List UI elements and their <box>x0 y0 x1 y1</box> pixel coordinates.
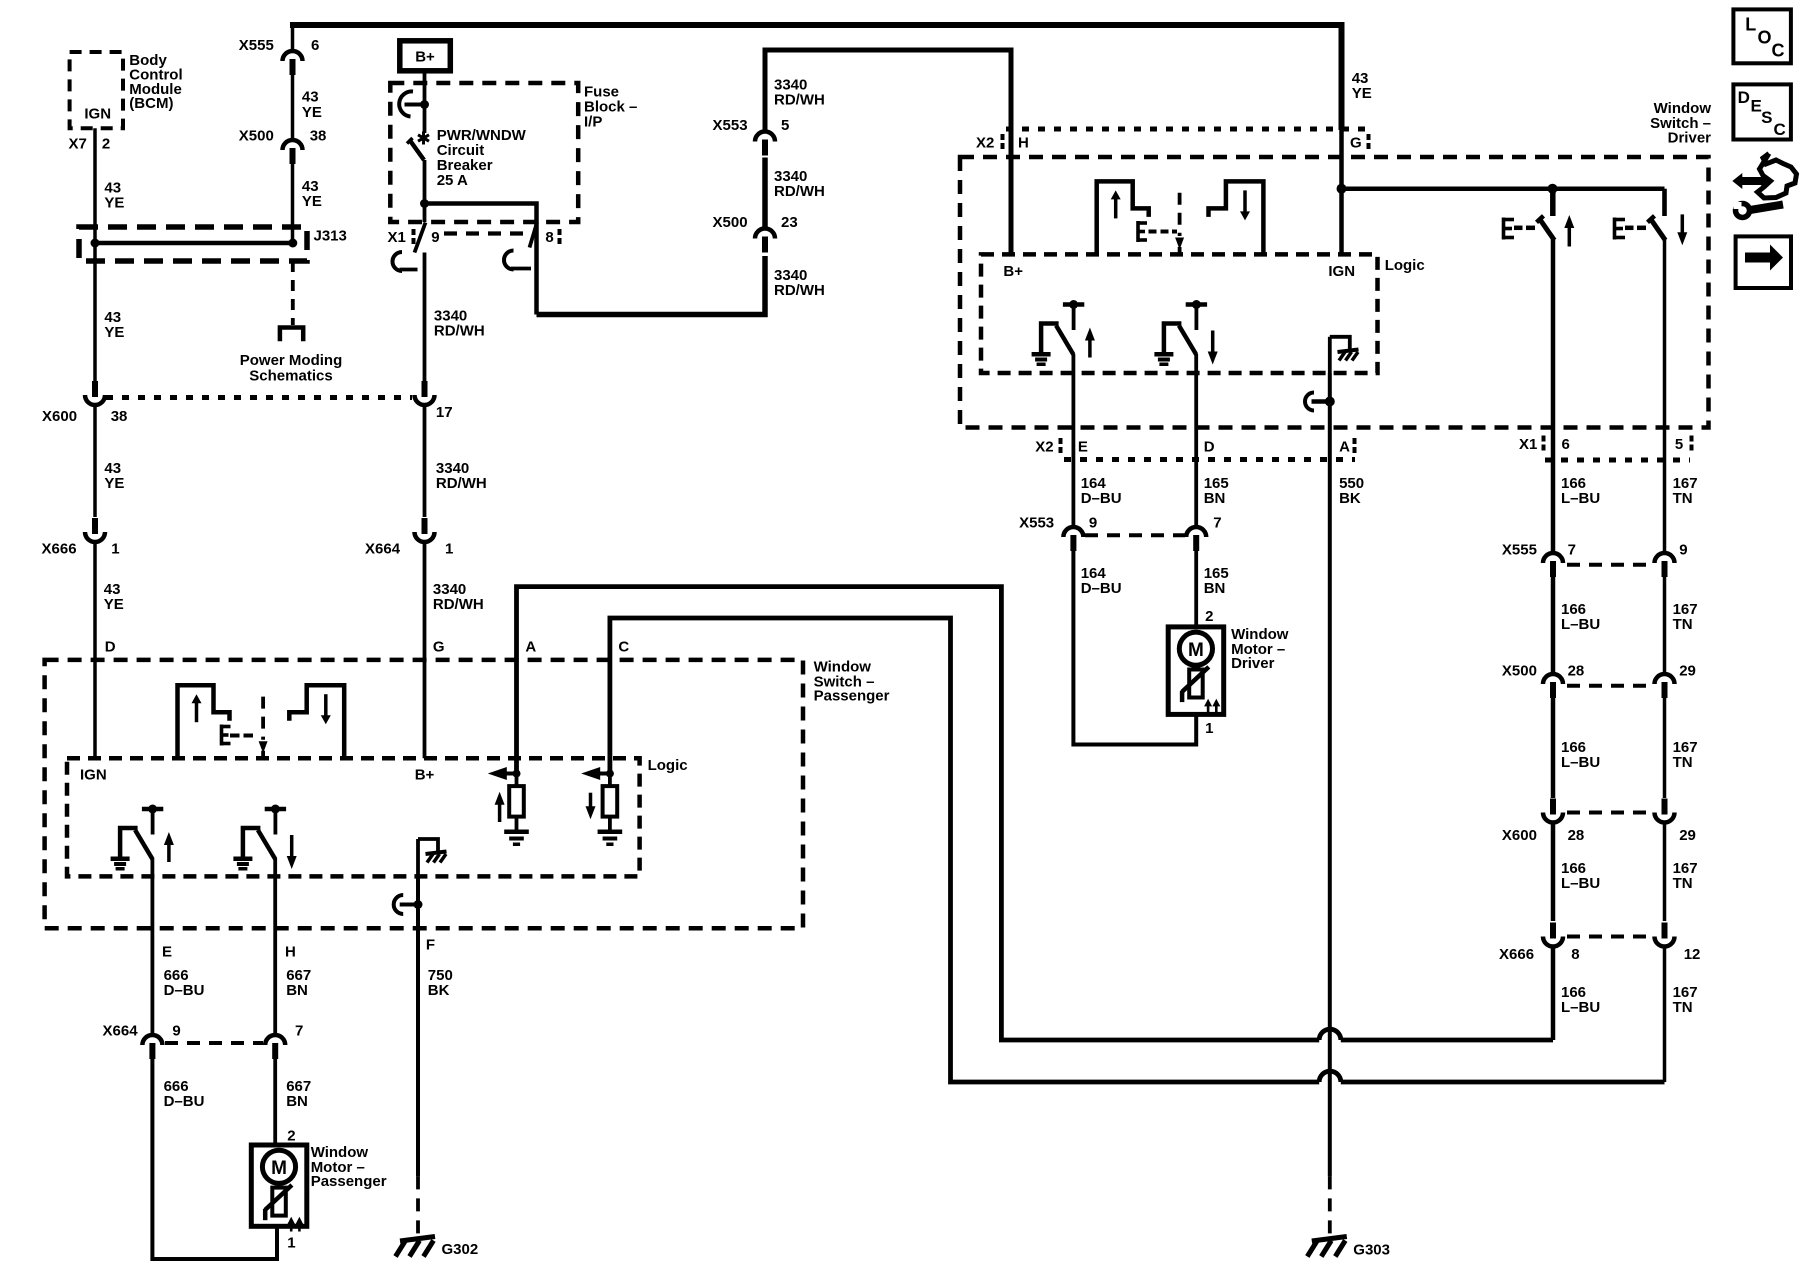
connector: X553 pin 5 inline terminal <box>755 132 775 142</box>
connector: X664 pin 9 inline terminal <box>142 1035 162 1045</box>
wire: B+ into circuit breaker <box>423 74 427 105</box>
svg-text:RD/WH: RD/WH <box>436 475 487 492</box>
svg-text:A: A <box>1339 439 1350 456</box>
svg-text:X664: X664 <box>365 541 401 558</box>
svg-text:E: E <box>1078 439 1088 456</box>
svg-text:YE: YE <box>302 193 322 210</box>
svg-text:TN: TN <box>1673 490 1693 507</box>
svg-text:X664: X664 <box>103 1023 139 1040</box>
wire: dashed lead to G302 <box>416 1176 420 1238</box>
wire: 167 TN X600 to X666 <box>1663 823 1667 922</box>
symbol: pass-through hook on ground lead <box>1325 397 1335 407</box>
svg-text:8: 8 <box>545 229 553 246</box>
wire: 43 YE from X500/38 down to J313 splice <box>291 164 295 243</box>
svg-text:C: C <box>1774 120 1786 139</box>
ground: logic internal ground with rake <box>1328 337 1332 373</box>
connector row: X555 dashed line <box>1567 563 1651 567</box>
connector: X600 pin 17 inline terminal <box>415 395 435 405</box>
switch: passenger logic up output switch <box>142 807 163 812</box>
svg-text:6: 6 <box>1562 436 1570 453</box>
svg-text:BN: BN <box>286 982 308 999</box>
svg-text:7: 7 <box>1568 542 1576 559</box>
logic: passenger switch logic dashed box <box>67 758 640 876</box>
junction: G feed node to switch contacts <box>1337 184 1347 194</box>
breaker: contact T-bar <box>405 103 425 107</box>
wire: 164 D-BU from switch E to X553 pin 9 <box>1072 373 1076 528</box>
connector: X600 pin 28 inline terminal <box>1543 813 1563 823</box>
wire: 165 BN from switch D to X553 pin 7 <box>1194 373 1198 528</box>
wire: 550 BK ground lead out of switch <box>1328 373 1332 1176</box>
svg-text:(BCM): (BCM) <box>129 95 173 112</box>
svg-text:G: G <box>433 639 445 656</box>
terminal: X1 pin 9 female hook <box>393 252 403 271</box>
svg-text:9: 9 <box>1089 515 1097 532</box>
terminal: X1 pin 8 male blade <box>530 223 538 248</box>
connector: X500 pin 38 inline terminal <box>283 140 303 150</box>
svg-text:7: 7 <box>1213 515 1221 532</box>
svg-text:L–BU: L–BU <box>1561 875 1600 892</box>
svg-text:5: 5 <box>1675 436 1683 453</box>
symbol: illumination E with dashes <box>1136 221 1140 242</box>
switch: driver logic down output switch <box>1186 302 1207 307</box>
connector: X600 pin 38 inline terminal <box>85 395 105 405</box>
svg-text:Driver: Driver <box>1668 130 1712 147</box>
svg-text:X600: X600 <box>1502 827 1537 844</box>
junction: left splice node <box>91 239 100 248</box>
connector row: X600 dotted line <box>106 395 412 400</box>
wire: 666 D-BU X664 to motor loop <box>152 1059 277 1259</box>
svg-text:X7: X7 <box>69 135 87 152</box>
symbol: window up detent step (passenger) <box>178 685 230 758</box>
connector row: X600 dashed line <box>1567 811 1651 815</box>
svg-text:1: 1 <box>1205 720 1213 737</box>
svg-text:X666: X666 <box>1499 946 1534 963</box>
symbol: window down detent step (passenger) <box>289 685 344 758</box>
wire: breaker output <box>423 160 427 222</box>
switch: passenger logic down output switch <box>265 807 286 812</box>
svg-text:X500: X500 <box>1502 663 1537 680</box>
svg-text:IGN: IGN <box>1328 263 1355 280</box>
svg-text:Logic: Logic <box>1385 257 1425 274</box>
wire: 165 BN to motor pin 2 <box>1194 551 1198 627</box>
connector: X666 pin 1 inline terminal <box>85 532 105 542</box>
wire: 3340 RD/WH from X1 pin 9 down to X600 pin 17 <box>423 253 427 382</box>
connector: X555 pin 7 inline terminal <box>1543 553 1563 563</box>
svg-text:38: 38 <box>310 128 327 145</box>
svg-text:D–BU: D–BU <box>1081 490 1122 507</box>
logic: driver switch logic dashed box <box>981 254 1378 373</box>
svg-text:Logic: Logic <box>648 757 688 774</box>
module: Body Control Module (BCM) dashed box <box>70 52 123 128</box>
icon: wrench <box>1750 205 1783 211</box>
wire: 3340 RD/WH from X600/17 to X664 pin 1 <box>423 405 427 517</box>
svg-text:BK: BK <box>1339 490 1361 507</box>
svg-text:2: 2 <box>1205 608 1213 625</box>
splice: J313 dashed box <box>79 227 307 261</box>
wire: bus drop right toward driver switch (43 YE) <box>1339 22 1345 130</box>
svg-text:D–BU: D–BU <box>164 982 205 999</box>
svg-text:9: 9 <box>172 1023 180 1040</box>
svg-text:Driver: Driver <box>1231 655 1275 672</box>
svg-text:17: 17 <box>436 404 453 421</box>
svg-text:RD/WH: RD/WH <box>774 282 825 299</box>
connector: X500 pin 23 inline terminal <box>755 229 775 239</box>
icon: LOC box <box>1733 9 1791 63</box>
svg-text:X2: X2 <box>1035 439 1053 456</box>
svg-text:Passenger: Passenger <box>311 1173 387 1190</box>
svg-text:2: 2 <box>102 135 110 152</box>
svg-text:BN: BN <box>1204 580 1226 597</box>
wire: branch to fuse block pin 8 <box>425 204 537 315</box>
svg-text:D–BU: D–BU <box>1081 580 1122 597</box>
svg-text:D: D <box>1204 439 1215 456</box>
svg-text:X555: X555 <box>239 37 274 54</box>
junction: breaker output node <box>420 199 429 208</box>
svg-text:8: 8 <box>1571 946 1579 963</box>
wire: 166 L-BU X555 to X500 <box>1551 577 1556 675</box>
svg-text:9: 9 <box>431 229 439 246</box>
svg-text:X553: X553 <box>713 117 748 134</box>
motor: Window Motor - Passenger <box>251 1145 306 1226</box>
svg-text:TN: TN <box>1673 875 1693 892</box>
wire: 43 YE from X666/1 to passenger switch pin D <box>93 542 97 758</box>
svg-text:1: 1 <box>111 541 119 558</box>
svg-text:2: 2 <box>287 1128 295 1145</box>
svg-text:RD/WH: RD/WH <box>774 183 825 200</box>
wire: BCM IGN output down to J313 (43 YE) <box>93 128 97 243</box>
wire: pin C link over to driver chain <box>610 618 1319 1082</box>
resistor: C sense divider <box>606 770 614 778</box>
wire: logic E output <box>1072 354 1076 373</box>
svg-text:X553: X553 <box>1019 515 1054 532</box>
svg-text:J313: J313 <box>314 228 347 245</box>
svg-text:7: 7 <box>295 1023 303 1040</box>
wire: 166 L-BU X600 to X666 <box>1551 823 1556 922</box>
svg-text:D: D <box>105 639 116 656</box>
svg-text:IGN: IGN <box>84 106 111 123</box>
symbol: window down detent step <box>1209 181 1264 254</box>
svg-text:C: C <box>618 639 629 656</box>
svg-text:YE: YE <box>104 475 124 492</box>
svg-text:A: A <box>525 639 536 656</box>
motor: Window Motor - Driver <box>1168 627 1224 715</box>
connector: X500 pin 29 inline terminal <box>1655 674 1675 684</box>
wire: dashed lead to G303 <box>1328 1176 1332 1238</box>
svg-text:D: D <box>1738 88 1750 107</box>
wire: 43 YE from J313 down to X600 pin 38 <box>93 243 97 381</box>
svg-text:1: 1 <box>445 541 453 558</box>
icon: part outline <box>1758 154 1797 199</box>
connector row: X500 dashed line <box>1567 684 1651 688</box>
svg-text:I/P: I/P <box>584 114 602 131</box>
wire: 3340 RD/WH up and over to driver switch pin H <box>765 50 1011 254</box>
svg-text:G: G <box>1350 135 1362 152</box>
symbol: illumination E with dashes (passenger) <box>220 725 224 746</box>
wire: 43 YE pin G down to logic IGN <box>1339 128 1344 254</box>
wire: 164 D-BU to motor loop <box>1073 551 1196 745</box>
svg-text:9: 9 <box>1679 542 1687 559</box>
connector row: X2 dotted line (top) <box>1006 127 1368 132</box>
svg-text:L: L <box>1745 15 1756 35</box>
symbol: window up detent step <box>1097 181 1149 254</box>
svg-text:6: 6 <box>311 37 319 54</box>
resistor: A sense divider <box>513 770 521 778</box>
terminal: X1 pin 8 female hook <box>504 251 514 270</box>
svg-text:X666: X666 <box>42 541 77 558</box>
wire: 167 TN X500 to X600 <box>1663 698 1667 798</box>
svg-text:L–BU: L–BU <box>1561 490 1600 507</box>
icon: DESC box <box>1733 84 1791 139</box>
svg-text:28: 28 <box>1568 827 1585 844</box>
symbol: up arrow (A sense) <box>495 792 505 805</box>
wire: 3340 RD/WH between X553/5 and X500/23 <box>762 158 768 230</box>
symbol: pass-through hook on ground lead (passenger) <box>414 900 423 909</box>
svg-text:L–BU: L–BU <box>1561 999 1600 1016</box>
wire: 750 BK ground lead out of switch <box>416 876 420 1176</box>
switch: driver up switch contact E-- blade <box>1502 218 1506 240</box>
connector row: X553 dashed line <box>1085 533 1185 537</box>
wire: 166 L-BU X500 to X600 <box>1551 698 1556 798</box>
icon: forward arrow box <box>1736 236 1791 288</box>
wire: 167 TN X555 to X500 <box>1663 577 1667 675</box>
wire: 666 D-BU from switch E to X664 pin 9 <box>150 876 154 1037</box>
connector: X600 pin 29 inline terminal <box>1655 813 1675 823</box>
wire: 3340 RD/WH from X664/1 to passenger switch pin G <box>423 542 427 758</box>
svg-text:BN: BN <box>1204 490 1226 507</box>
wire: logic D output <box>1194 354 1198 373</box>
svg-text:X1: X1 <box>388 229 406 246</box>
connector row: X666 dashed line <box>1567 935 1651 939</box>
wire: bus drop to X555 pin 6 <box>291 25 295 53</box>
svg-text:YE: YE <box>104 324 124 341</box>
wire: 166 L-BU from driver up switch to X555 pin 7 <box>1551 240 1556 555</box>
svg-text:X500: X500 <box>239 128 274 145</box>
module: Fuse Block - I/P dashed box <box>390 83 578 222</box>
symbol: down arrow (driver down switch) <box>1677 232 1687 245</box>
svg-text:X2: X2 <box>976 135 994 152</box>
svg-text:TN: TN <box>1673 999 1693 1016</box>
svg-text:29: 29 <box>1679 663 1696 680</box>
connector: X553 pin 9 inline terminal <box>1063 527 1083 537</box>
svg-text:B+: B+ <box>415 49 435 66</box>
svg-text:BK: BK <box>428 982 450 999</box>
svg-text:Passenger: Passenger <box>814 688 890 705</box>
symbol: dashed actuator arrow <box>1178 193 1182 236</box>
ground: G303 <box>1312 1237 1347 1242</box>
svg-text:G303: G303 <box>1353 1242 1390 1259</box>
junction: up-switch tap <box>1548 184 1558 194</box>
terminal: X1 pin 9 male blade <box>415 223 426 253</box>
connector: X664 pin 7 inline terminal <box>265 1035 285 1045</box>
wire: 3340 RD/WH fuse output to X500 pin 23 <box>537 256 766 315</box>
svg-text:YE: YE <box>104 194 124 211</box>
wire: logic H output (passenger) <box>273 858 277 876</box>
wire: B+ feed bus top horizontal <box>290 22 1345 28</box>
breaker: thermal asterisk <box>422 132 425 145</box>
svg-text:Schematics: Schematics <box>249 367 332 384</box>
svg-text:M: M <box>271 1158 287 1179</box>
svg-text:12: 12 <box>1684 946 1701 963</box>
wire: splice bus inside J313 <box>95 241 293 246</box>
svg-text:H: H <box>1018 135 1029 152</box>
svg-text:S: S <box>1761 108 1772 127</box>
wire: logic E output (passenger) <box>150 858 154 876</box>
junction: breaker feed node <box>420 100 429 109</box>
power symbol: B+ box <box>400 41 451 71</box>
svg-text:RD/WH: RD/WH <box>774 92 825 109</box>
svg-text:H: H <box>285 944 296 961</box>
wire: 43 YE from X600/38 down to X666 pin 1 <box>93 405 97 517</box>
svg-text:BN: BN <box>286 1093 308 1110</box>
connector: X666 pin 8 inline terminal <box>1543 937 1563 947</box>
connector: X555 pin 6 inline terminal <box>283 51 303 61</box>
svg-text:X1: X1 <box>1519 436 1537 453</box>
ground: passenger logic internal ground with rake <box>416 839 420 876</box>
wire: 667 BN X664 to motor pin 2 <box>273 1059 277 1145</box>
svg-text:X500: X500 <box>713 214 748 231</box>
icon: service double arrow <box>1732 173 1742 189</box>
wire: dashed reference drop from J313 <box>291 261 295 325</box>
ground: C divider ground <box>598 830 623 835</box>
symbol: down arrow (C sense) <box>586 806 596 819</box>
svg-text:YE: YE <box>302 104 322 121</box>
svg-text:1: 1 <box>287 1235 295 1252</box>
svg-text:23: 23 <box>781 214 798 231</box>
symbol: off-page bracket to Power Moding Schematics <box>280 328 303 342</box>
svg-text:B+: B+ <box>415 767 435 784</box>
svg-text:RD/WH: RD/WH <box>434 323 485 340</box>
wire: 166 L-BU X666 to passenger switch pin A link <box>1551 947 1556 1041</box>
connector: X500 pin 28 inline terminal <box>1543 674 1563 684</box>
svg-text:C: C <box>1772 40 1785 60</box>
wire: 667 BN from switch H to X664 pin 7 <box>273 876 277 1037</box>
svg-text:38: 38 <box>111 408 128 425</box>
connector: X664 pin 1 inline terminal <box>415 532 435 542</box>
connector: X555 pin 9 inline terminal <box>1655 553 1675 563</box>
connector row: X1 dashed line <box>444 231 528 235</box>
svg-text:X555: X555 <box>1502 542 1537 559</box>
wire: 167 TN X666 to passenger switch pin C link <box>1663 947 1667 1083</box>
svg-text:25 A: 25 A <box>437 172 468 189</box>
svg-text:28: 28 <box>1568 663 1585 680</box>
connector: X666 pin 12 inline terminal <box>1655 937 1675 947</box>
svg-text:IGN: IGN <box>80 767 107 784</box>
svg-text:O: O <box>1758 27 1772 47</box>
svg-text:G302: G302 <box>442 1241 479 1258</box>
svg-text:TN: TN <box>1673 616 1693 633</box>
svg-text:D–BU: D–BU <box>164 1093 205 1110</box>
svg-text:B+: B+ <box>1003 263 1023 280</box>
svg-text:RD/WH: RD/WH <box>433 596 484 613</box>
ground: A divider ground <box>504 830 529 835</box>
wire: feed to driver up/down switch contacts <box>1342 186 1665 191</box>
svg-text:L–BU: L–BU <box>1561 616 1600 633</box>
symbol: dashed actuator arrow (passenger) <box>261 697 265 740</box>
ground: G302 <box>400 1237 435 1242</box>
svg-text:YE: YE <box>1352 85 1372 102</box>
switch: driver down switch contact E-- blade <box>1613 218 1617 240</box>
module: Window Switch - Passenger dashed box <box>45 660 803 928</box>
wire: breaker internal <box>423 105 427 134</box>
connector row: X1 dotted line (driver) <box>1545 458 1690 463</box>
connector row: X2 dotted line (bottom) <box>1064 457 1355 462</box>
wire: 43 YE between X555 and X500 <box>291 75 295 142</box>
switch: driver logic up output switch <box>1063 302 1084 307</box>
svg-text:F: F <box>426 937 435 954</box>
module: Window Switch - Driver dashed box <box>960 157 1709 428</box>
svg-text:YE: YE <box>104 596 124 613</box>
wire: pin A link over to driver chain <box>517 587 1320 1040</box>
connector row: X664 dashed line <box>165 1041 263 1045</box>
connector: X553 pin 7 inline terminal <box>1186 527 1206 537</box>
svg-text:L–BU: L–BU <box>1561 754 1600 771</box>
breaker: switch blade <box>410 141 424 161</box>
symbol: up arrow (driver up switch) <box>1564 215 1574 228</box>
svg-text:29: 29 <box>1679 827 1696 844</box>
junction: right splice node <box>288 239 297 248</box>
svg-text:X600: X600 <box>42 408 77 425</box>
svg-text:M: M <box>1188 640 1204 661</box>
svg-text:TN: TN <box>1673 754 1693 771</box>
breaker: upper contact hook <box>399 91 413 116</box>
wire: 167 TN from driver down switch to X555 pin 9 <box>1663 240 1667 555</box>
svg-text:E: E <box>162 944 172 961</box>
svg-text:5: 5 <box>781 117 789 134</box>
